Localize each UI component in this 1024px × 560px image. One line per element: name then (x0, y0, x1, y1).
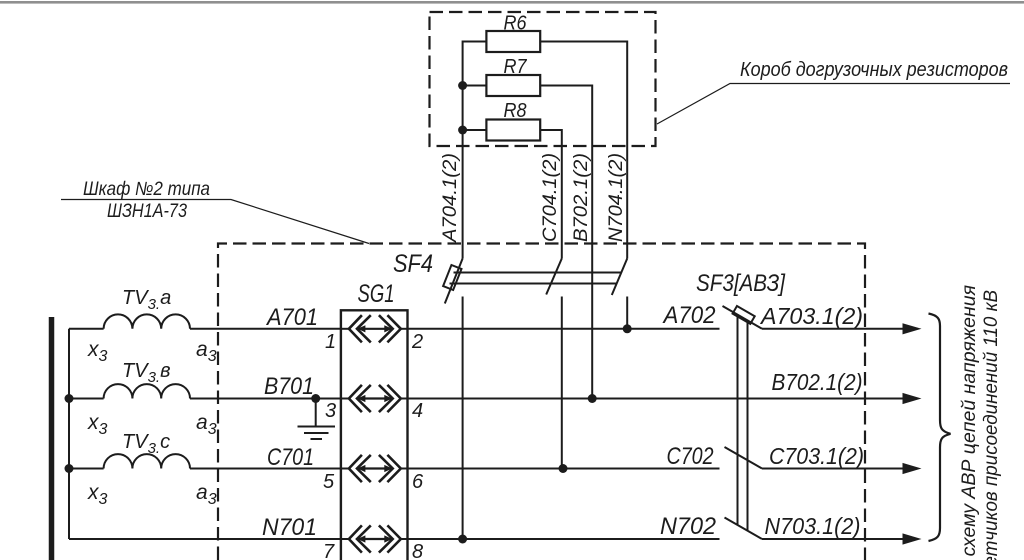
node B701 ground junction (311, 394, 320, 403)
svg-text:N704.1(2): N704.1(2) (606, 153, 627, 242)
winding TV3.с (104, 431, 190, 469)
svg-text:R7: R7 (504, 56, 528, 78)
wire B row (SG1 to arrow) (408, 398, 905, 400)
wire C row mid (408, 468, 720, 470)
top border line (0, 1, 1024, 4)
resistor R8 (486, 100, 540, 141)
winding TV3.в (104, 360, 190, 399)
wire N row mid (408, 538, 720, 540)
svg-text:а3: а3 (196, 481, 217, 508)
curly brace (929, 314, 951, 542)
arrow N row (903, 533, 922, 544)
node bus/C701 junction (65, 464, 74, 473)
resistor R6 (486, 13, 540, 53)
svg-text:N701: N701 (262, 514, 317, 541)
SG1 contact row B (325, 385, 423, 422)
SG1 contact row N (323, 525, 423, 560)
svg-text:В702.1(2): В702.1(2) (571, 153, 592, 242)
wire C704 column lower (to C row) (561, 297, 563, 469)
wire R7 right (540, 86, 592, 147)
wire C704 column upper (561, 146, 563, 259)
svg-text:TV3.в: TV3.в (122, 360, 171, 386)
svg-text:А704.1(2): А704.1(2) (440, 153, 461, 243)
svg-text:С702: С702 (667, 443, 714, 470)
svg-text:В702.1(2): В702.1(2) (772, 369, 863, 395)
switch SF4 pole 1 blade (443, 259, 462, 304)
wire B701 row (69, 398, 341, 400)
wire N701 row (69, 538, 341, 540)
wire A704 column upper (462, 146, 464, 259)
svg-text:А701: А701 (265, 304, 318, 331)
SG1 contact row A (325, 315, 423, 353)
wire N703.1(2) (762, 538, 904, 540)
svg-text:SG1: SG1 (358, 280, 395, 308)
svg-text:4: 4 (412, 400, 423, 422)
svg-text:R6: R6 (504, 13, 528, 35)
wire R7 left (463, 85, 487, 87)
svg-text:С704.1(2): С704.1(2) (540, 153, 561, 242)
wire R8 right (540, 130, 562, 146)
arrow A row (903, 323, 922, 334)
svg-text:6: 6 (412, 471, 424, 493)
svg-text:8: 8 (412, 541, 423, 560)
label Шкаф №2 типа ШЗН1А-73 with leader (61, 179, 369, 244)
node B702/B701 junction (588, 394, 597, 403)
svg-text:В701: В701 (264, 373, 314, 400)
switch SF4 pole 2 blade (546, 259, 562, 295)
resistor box dashed enclosure (430, 12, 656, 146)
node R7-left junction (458, 81, 467, 90)
svg-text:счетчиков присоединений 110 кВ: счетчиков присоединений 110 кВ (981, 290, 1002, 560)
svg-text:TV3.с: TV3.с (122, 431, 170, 457)
svg-text:а3: а3 (196, 411, 217, 438)
wire B702 column (continuous through SF4) (591, 146, 593, 399)
svg-text:2: 2 (411, 331, 423, 353)
svg-text:SF4: SF4 (393, 250, 433, 278)
node A704/N701 junction (458, 535, 467, 544)
svg-text:N702: N702 (660, 513, 716, 540)
svg-text:1: 1 (325, 331, 336, 353)
wire left vertical connector (68, 329, 70, 539)
winding TV3.a (104, 287, 190, 329)
svg-text:ШЗН1А-73: ШЗН1А-73 (107, 201, 187, 222)
wire С703.1(2) (762, 468, 904, 470)
arrow C row (903, 463, 922, 474)
wire A701 row (69, 328, 341, 330)
wire C701 row (69, 468, 341, 470)
node bus/B701 junction (65, 394, 74, 403)
SG1 contact row C (323, 455, 424, 493)
switch SF3 pole N blade (725, 518, 763, 540)
SF4 linkage bar upper (454, 272, 622, 274)
node N704/A701 junction (623, 324, 632, 333)
svg-text:Шкаф №2 типа: Шкаф №2 типа (83, 179, 210, 200)
SF4 linkage bar lower (450, 283, 618, 285)
svg-text:Короб догрузочных резисторов: Короб догрузочных резисторов (740, 59, 1008, 81)
ground (298, 399, 336, 440)
svg-text:TV3.а: TV3.а (122, 287, 171, 313)
svg-text:7: 7 (323, 541, 335, 560)
svg-text:R8: R8 (504, 100, 527, 122)
busbar x3 (49, 317, 55, 560)
wire А703.1(2) (762, 328, 904, 330)
wire A row mid (SG1 to SF3) (408, 328, 720, 330)
wire N704 column lower (to A row) (626, 297, 628, 329)
svg-text:А702: А702 (662, 302, 716, 329)
cabinet dashed box (Шкаф) (218, 244, 865, 560)
SF3 linkage bar right (747, 321, 749, 532)
wire R6 left (463, 42, 487, 147)
switch SF3 pole C blade (725, 447, 763, 469)
SF3 linkage bar left (737, 315, 739, 526)
svg-text:3: 3 (325, 400, 336, 422)
node C704/C701 junction (559, 464, 568, 473)
label Короб догрузочных резисторов with leader (657, 59, 1010, 124)
wire N704 column upper (626, 146, 628, 259)
resistor R7 (486, 56, 540, 96)
svg-text:х3: х3 (87, 411, 108, 438)
svg-text:в схему АВР цепей напряжения: в схему АВР цепей напряжения (959, 285, 980, 560)
terminal block SG1 (341, 280, 408, 560)
svg-text:а3: а3 (196, 338, 217, 365)
svg-text:С701: С701 (267, 444, 314, 471)
svg-text:N703.1(2): N703.1(2) (765, 513, 861, 539)
svg-text:х3: х3 (87, 481, 108, 508)
switch SF3 pole A blade (723, 306, 763, 329)
svg-text:х3: х3 (87, 338, 108, 365)
svg-text:А703.1(2): А703.1(2) (759, 303, 863, 329)
arrow B row (903, 393, 922, 404)
wire A704 column lower (to N row) (462, 297, 464, 540)
switch SF4 pole 3 blade (612, 259, 627, 296)
svg-text:SF3[АВЗ]: SF3[АВЗ] (696, 270, 786, 297)
wire R8 left (463, 129, 487, 131)
node R8-left junction (458, 126, 467, 135)
wire R6 right (540, 42, 627, 147)
svg-text:5: 5 (323, 471, 335, 493)
svg-text:С703.1(2): С703.1(2) (769, 443, 864, 469)
